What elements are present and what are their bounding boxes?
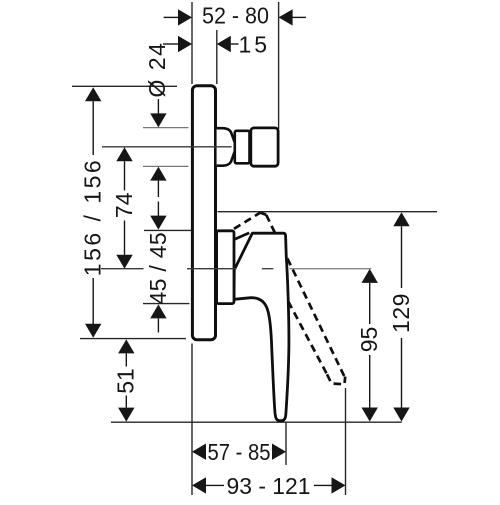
pivot centerline	[101, 268, 273, 270]
dashed open lever	[234, 213, 345, 385]
dimension 129	[388, 212, 414, 421]
wire hub-bottom tick	[143, 303, 190, 305]
wire hub-top extension	[144, 229, 215, 231]
dimension 15	[163, 31, 270, 57]
dashed lever upper-right edge (below solid lever)	[287, 259, 344, 378]
svg-text:129: 129	[388, 293, 414, 333]
svg-text:57 - 85: 57 - 85	[208, 439, 271, 465]
knob centerline	[102, 146, 232, 148]
svg-text:95: 95	[356, 327, 382, 353]
dimension 95	[356, 269, 382, 422]
wire plate-bottom extension	[80, 338, 186, 340]
dimension 156/156	[80, 87, 106, 338]
knob middle cylinder	[235, 131, 250, 164]
wire baseline	[111, 421, 402, 423]
dashed lever tip	[327, 374, 345, 384]
wire extension line plate-right above	[216, 30, 218, 84]
dimension 52-80	[164, 3, 306, 29]
pivot centerline right segment	[290, 268, 372, 270]
svg-text:74: 74	[111, 192, 137, 218]
wire extension line plate-left above	[191, 2, 193, 84]
dashed lever lower-left edge	[288, 302, 327, 375]
wire plate-top extension	[72, 85, 177, 87]
svg-text:93 - 121: 93 - 121	[227, 473, 311, 499]
dimension Ø24	[144, 42, 170, 197]
lever neck facet	[234, 233, 249, 240]
knob end cap	[251, 128, 278, 166]
wire left bottom extension	[191, 344, 193, 496]
wire handle-top level line	[218, 211, 438, 213]
svg-text:Ø 24: Ø 24	[144, 42, 170, 98]
handle hub	[217, 231, 234, 304]
knob neck	[217, 128, 236, 166]
dimension 51	[113, 339, 139, 421]
dimension 57-85	[192, 439, 286, 465]
escutcheon plate	[192, 86, 215, 340]
dashed lever upper-right edge (visible above solid lever)	[266, 215, 276, 237]
dashed lever top-end edge	[234, 213, 260, 229]
svg-text:51: 51	[113, 368, 139, 394]
wire knob-bottom tick	[143, 165, 189, 167]
dashed lever corner	[260, 213, 266, 215]
dimension 45/45 lower arrow	[150, 304, 166, 332]
dimension 93-121	[192, 473, 346, 499]
wire 93-121 right extension	[345, 388, 347, 495]
wire knob-top tick	[143, 127, 189, 129]
svg-text:45 / 45: 45 / 45	[145, 232, 171, 304]
svg-text:156 / 156: 156 / 156	[80, 158, 106, 276]
svg-text:15: 15	[239, 31, 271, 57]
wire 57-85 right extension	[285, 422, 287, 465]
dimension 45/45 upper arrow	[150, 202, 166, 230]
wire extension line knob face	[278, 2, 280, 129]
dimension 74	[111, 147, 137, 268]
svg-text:52 - 80: 52 - 80	[202, 3, 269, 29]
lever blade	[234, 233, 289, 421]
